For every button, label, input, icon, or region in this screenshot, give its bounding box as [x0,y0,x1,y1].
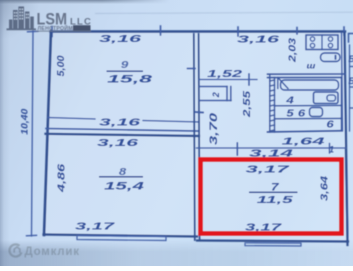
dimension line 3.14 / 1.64 [197,147,347,149]
left dimension line 10.40 [32,31,34,236]
svg-text:4: 4 [285,94,294,106]
logo underline [36,30,91,32]
bottom wall right part under red [197,241,348,242]
window bottom-right [245,243,301,246]
svg-text:7: 7 [271,181,280,193]
watermark domklik icon [10,244,22,256]
svg-text:8: 8 [119,165,127,177]
closet box top [200,86,228,88]
svg-text:3,16: 3,16 [237,34,279,46]
central vertical wall double line [194,34,195,240]
tick at 237 [236,143,238,155]
svg-text:15,8: 15,8 [107,74,154,86]
room9 fraction line [107,70,144,72]
room9 bottom dim line left segment [48,118,95,120]
dimension texts [20,33,353,234]
stove [306,35,338,50]
tick on 1.52 line [248,74,250,85]
sink [321,53,341,62]
top dim ticks [52,26,344,37]
svg-text:3,70: 3,70 [208,112,220,145]
window bottom-left [77,236,166,241]
door swing in bath [278,78,288,89]
logo subtitle dark slab [73,25,91,31]
svg-text:Домклик: Домклик [25,246,80,258]
svg-text:Б: Б [348,76,353,86]
closet box right double [227,87,231,101]
svg-text:5: 5 [286,107,294,119]
svg-text:ш: ш [307,61,316,70]
red highlight rectangle [201,160,342,234]
top dimension line [51,30,346,32]
svg-text:3,17: 3,17 [75,221,116,233]
svg-text:1,52: 1,52 [207,68,242,80]
dimension line 1.52 [199,79,257,81]
bathroom block [268,74,346,132]
svg-text:2,55: 2,55 [241,91,253,118]
svg-text:10,40: 10,40 [20,108,31,135]
svg-text:15,4: 15,4 [104,181,144,193]
10.40 dim end ticks [27,31,39,236]
svg-text:3,16: 3,16 [99,33,141,45]
svg-text:2: 2 [211,92,221,98]
inner line above bottom band [275,117,342,119]
svg-text:3,17: 3,17 [246,164,291,176]
left wall [44,32,51,236]
wc fixture [310,108,323,117]
svg-text:4,86: 4,86 [56,164,68,194]
svg-text:3,16: 3,16 [99,117,140,129]
logo windows on buildings [14,9,29,20]
room8 fraction line [99,176,143,178]
wash basin inner [327,95,336,101]
bath block top double wall [268,74,346,78]
tick on central wall [196,111,204,114]
inner line between bath and wc [275,104,342,106]
bath block right edge [341,77,343,130]
logo buildings icon [7,7,37,31]
svg-text:6: 6 [298,107,306,119]
svg-text:2,03: 2,03 [288,37,299,63]
faint scan crease [95,12,353,13]
svg-text:3,16: 3,16 [97,137,138,149]
right edge legend lines [350,45,353,131]
svg-text:Б: Б [348,54,353,64]
wall between rooms 9 and 8 upper line [46,129,199,132]
svg-text:5,00: 5,00 [56,55,67,76]
svg-text:3,64: 3,64 [319,176,331,201]
room9 bottom dim line right segment [143,121,199,123]
svg-text:1,64: 1,64 [282,136,325,148]
right wall inner line [342,33,343,131]
bottom wall left part [44,235,198,237]
room7 fraction line [249,191,298,193]
closet box bottom [200,100,232,102]
kitchen appliances [306,34,353,132]
svg-text:1: 1 [329,145,334,156]
bath block bottom [268,131,342,132]
hatch rungs [270,80,275,131]
bath block left hatched wall two verticals [270,74,275,132]
svg-text:6: 6 [326,118,334,130]
tick at 329 [329,144,331,154]
corner box right of wall [349,34,353,43]
svg-text:9: 9 [121,59,129,71]
wall between rooms 9 and 8 lower line [46,134,200,136]
plan interior light patch [45,32,348,240]
tick on central wall upper [188,68,196,70]
bathtub [281,80,339,90]
room7 right wall [346,150,348,240]
wash basin outer [314,92,339,104]
right wall [345,33,348,245]
svg-text:11,5: 11,5 [257,194,293,206]
